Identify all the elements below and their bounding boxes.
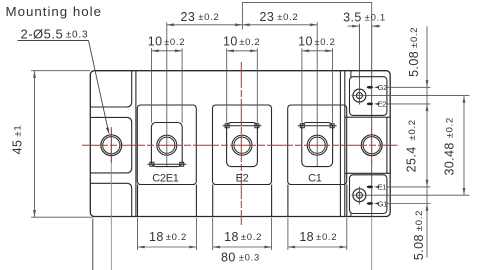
- mounting hole right: [361, 135, 382, 156]
- aux pin G2 leader to dim: [386, 86, 430, 88]
- svg-text:Mounting hole: Mounting hole: [6, 4, 103, 19]
- dimension 23±0.2 (left span): [167, 24, 317, 26]
- dimension 30.48±0.2 text: [442, 117, 456, 176]
- module body outline: [90, 71, 390, 217]
- left tab slot lower: [90, 168, 131, 217]
- red crosshair right mounting hole: [371, 127, 373, 164]
- aux circle top horizontal centerline extension: [352, 95, 470, 97]
- leader line to mounting hole: [89, 41, 109, 134]
- svg-text:18±0.2: 18±0.2: [224, 230, 262, 244]
- dimension 45±1 text: [10, 125, 24, 155]
- 10-dim extension lines block3: [301, 48, 303, 123]
- block center extension stub middle: [241, 25, 243, 30]
- block C2E1 clamp bar (bottom): [147, 162, 186, 166]
- right chain dimension line (5.08 / 25.4 / 5.08): [426, 26, 428, 257]
- mounting hole left: [101, 135, 122, 156]
- label underline: [18, 40, 89, 42]
- dimension 45±1 line: [34, 71, 36, 218]
- block C2E1 inner well: [151, 123, 182, 167]
- dimension 5.08±0.2 top text: [407, 27, 421, 77]
- 10-dim extension lines block1: [151, 48, 153, 123]
- terminal block C2E1: [137, 105, 196, 185]
- aux circle bottom crosshair vertical: [358, 187, 360, 205]
- right pocket column edge: [386, 117, 388, 173]
- svg-text:2-Ø5.5±0.3: 2-Ø5.5±0.3: [21, 26, 89, 41]
- dimension 10±0.2 block3: [302, 50, 333, 52]
- red crosshair left mounting hole: [110, 127, 112, 164]
- aux circle bottom horizontal centerline extension: [352, 194, 470, 196]
- 10-dim extension lines block2: [226, 48, 228, 123]
- aux pin G1: [367, 202, 373, 205]
- dimension 18±0.2 block1: [138, 246, 197, 248]
- aux pin G1 leader to dim: [386, 203, 430, 205]
- svg-text:G1: G1: [378, 199, 387, 208]
- right shelf line lower: [345, 172, 390, 174]
- right groove line A: [339, 71, 341, 216]
- dimension 10±0.2 block1: [152, 50, 183, 52]
- dimension 30.48±0.2 line: [463, 96, 465, 196]
- svg-text:23±0.2: 23±0.2: [181, 10, 220, 24]
- aux screw circle bottom: [353, 189, 366, 202]
- right groove line B: [344, 71, 346, 216]
- left body groove line: [135, 71, 137, 216]
- right shelf line upper: [345, 116, 390, 118]
- aux pin E2 leader to dim: [386, 103, 430, 105]
- mounting hole left vertical centerline: [110, 129, 112, 163]
- block E2 inner well: [227, 123, 258, 167]
- aux pocket bottom stub to bottom edge: [350, 213, 352, 216]
- svg-text:E1: E1: [378, 183, 387, 192]
- dimension 18±0.2 block2: [213, 246, 272, 248]
- block C2E1 terminal circle: [157, 135, 177, 155]
- aux circle top crosshair vertical / 3.5-dim extension: [358, 24, 360, 105]
- dimension 18±0.2 block3: [288, 246, 347, 248]
- mounting hole right vertical centerline / 3.5-dim extension: [371, 26, 373, 217]
- terminal block C1: [288, 105, 347, 185]
- svg-text:E2: E2: [236, 173, 249, 185]
- svg-text:C1: C1: [308, 173, 322, 185]
- aux screw circle top: [353, 89, 366, 102]
- svg-text:10±0.2: 10±0.2: [298, 35, 335, 49]
- block center extension line 1 (23-dim): [166, 22, 168, 166]
- aux pin E1: [367, 186, 373, 189]
- aux pin E2: [367, 103, 373, 106]
- svg-text:18±0.2: 18±0.2: [299, 230, 337, 244]
- aux pocket top stub to top edge: [350, 71, 352, 77]
- red horizontal centerline: [82, 144, 398, 146]
- aux pin E1 leader to dim: [386, 186, 430, 188]
- block C1 terminal circle: [307, 135, 327, 155]
- aux pocket top (G2/E2): [350, 77, 387, 116]
- red vertical centerline (module/E2 center): [240, 62, 242, 225]
- left edge extension line going down: [92, 219, 94, 270]
- block C1 inner well: [302, 123, 333, 167]
- terminal block E2: [213, 105, 272, 185]
- dimension 5.08±0.2 bottom text: [412, 210, 426, 260]
- svg-text:5.08±0.2: 5.08±0.2: [412, 210, 426, 260]
- svg-text:30.48±0.2: 30.48±0.2: [442, 117, 456, 176]
- svg-text:18±0.2: 18±0.2: [149, 230, 187, 244]
- dimension 25.4±0.2 text: [405, 119, 419, 172]
- svg-text:C2E1: C2E1: [152, 173, 178, 185]
- svg-text:10±0.2: 10±0.2: [148, 35, 185, 49]
- svg-text:3.5±0.1: 3.5±0.1: [343, 10, 386, 24]
- left tab slot upper: [90, 71, 131, 168]
- block C1 clamp bar (top): [298, 124, 337, 128]
- block E2 terminal circle: [232, 135, 252, 155]
- block center extension line 3 (23-dim): [316, 22, 318, 166]
- dimension 10±0.2 block2: [227, 50, 258, 52]
- svg-text:80±0.3: 80±0.3: [221, 250, 260, 264]
- svg-text:E2: E2: [378, 100, 387, 109]
- svg-text:5.08±0.2: 5.08±0.2: [407, 27, 421, 77]
- dimension 45±1 extension lines: [31, 70, 90, 72]
- pedestal / 18-dim extension verticals: [137, 185, 139, 217]
- svg-text:23±0.2: 23±0.2: [260, 10, 299, 24]
- svg-text:G2: G2: [378, 83, 387, 92]
- aux pin G2: [367, 86, 373, 89]
- svg-text:10±0.2: 10±0.2: [223, 35, 260, 49]
- aux pocket bottom (E1/G1): [350, 175, 387, 214]
- top bracket (jogged extension to right hole centerline): [242, 3, 371, 27]
- dimension 3.5±0.1: [348, 25, 360, 27]
- block E2 clamp bar (top): [223, 124, 262, 128]
